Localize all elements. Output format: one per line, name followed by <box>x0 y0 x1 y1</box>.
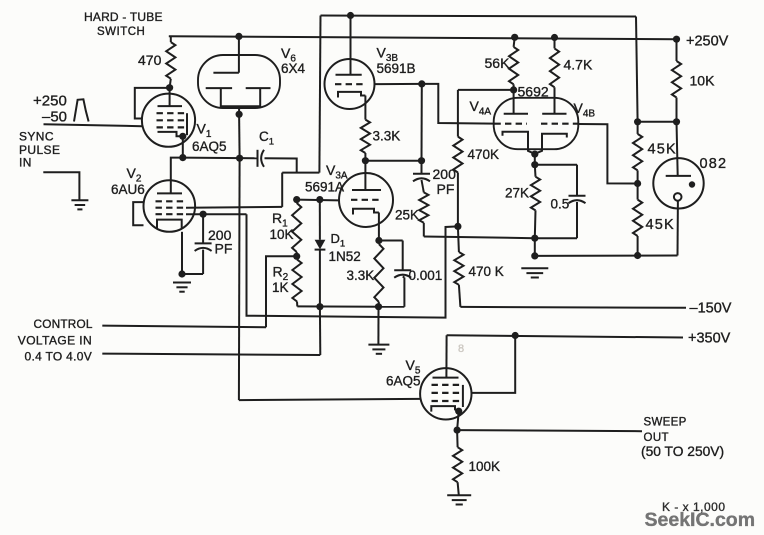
svg-text:1N52: 1N52 <box>329 249 361 264</box>
svg-text:45K: 45K <box>648 142 677 158</box>
node 082 gas dot <box>689 181 695 187</box>
wire V5 grid line <box>239 399 420 400</box>
node V4 cathode tap <box>531 151 538 158</box>
svg-text:45K: 45K <box>646 217 675 233</box>
wire 3.3K bottom to 200PF <box>365 160 421 162</box>
label IN <box>19 155 32 169</box>
wire V5 cathode bracket <box>431 406 458 412</box>
svg-text:VOLTAGE IN: VOLTAGE IN <box>18 333 92 347</box>
label 3.3K (V3B) <box>373 128 401 143</box>
diode D1 1N52 <box>315 200 326 307</box>
svg-text:+250: +250 <box>33 92 67 109</box>
resistor 470 K (lower) <box>454 226 463 307</box>
wire V4B grid route <box>578 124 637 184</box>
tube V3A 5691A envelope <box>339 173 393 227</box>
tube V2 6AU6 envelope <box>144 180 196 232</box>
svg-text:SWITCH: SWITCH <box>97 26 145 38</box>
svg-text:470K: 470K <box>468 147 500 162</box>
svg-text:–150V: –150V <box>690 301 732 317</box>
wire V4 grid dashes left <box>494 123 527 125</box>
wire V2 cathode bracket <box>157 220 182 229</box>
label V1 type 6AQ5 <box>192 139 227 154</box>
wire V2 grid dashes row2 <box>156 207 187 209</box>
wire C1 node down to V2 screen <box>281 173 283 207</box>
label R2 value 1K <box>272 280 289 295</box>
label SYNC <box>19 130 54 144</box>
node 3.3K bottom / ground tap <box>375 303 382 310</box>
capacitor 200 PF (V2 cathode) leads <box>202 214 204 274</box>
label 45K (upper) <box>648 142 677 158</box>
label 10K <box>690 72 716 88</box>
label -150V <box>690 301 732 317</box>
label 27K <box>505 186 529 201</box>
resistor 27K <box>531 165 540 239</box>
svg-text:5691B: 5691B <box>377 61 416 76</box>
wire +350V line <box>447 335 683 337</box>
tube V6 6X4 envelope <box>198 55 280 108</box>
capacitor C1 <box>258 150 265 167</box>
node D1 top <box>316 196 323 203</box>
wire 470K top link <box>458 89 514 91</box>
label V3A type 5691A <box>305 180 344 195</box>
ground sync input <box>71 200 88 209</box>
wire control line 2 <box>102 307 320 355</box>
label PULSE <box>19 143 60 157</box>
node 5692 plate junction <box>510 86 517 93</box>
wire control line 1 <box>102 326 266 328</box>
wire V1 grid dashes row1 <box>157 112 188 114</box>
node C1 left / V6 node <box>236 155 243 162</box>
wire 082 cathode lead <box>677 201 679 256</box>
resistor 470K (upper) <box>453 90 462 227</box>
label 0.5 <box>551 197 570 212</box>
label V6 type 6X4 <box>281 61 306 76</box>
label +250 pulse level <box>33 92 67 109</box>
wire V1 cathode down <box>182 136 184 157</box>
wire V4B plate bar <box>542 113 566 115</box>
label V1 <box>197 121 212 140</box>
node V3B grid junction <box>418 80 425 87</box>
label 200 (V2) <box>208 227 232 243</box>
label 200 (V3B) <box>433 166 457 182</box>
wire 0.5 loop top <box>535 164 577 166</box>
label V5 type 6AQ5 <box>386 374 421 389</box>
svg-text:3.3K: 3.3K <box>347 268 375 283</box>
wire V1 grid dashes row3 <box>157 126 188 128</box>
svg-text:1K: 1K <box>272 280 289 295</box>
wire V4A plate bar <box>504 113 528 115</box>
svg-text:100K: 100K <box>469 459 501 474</box>
wire V5 grid dashes row2 <box>432 392 463 394</box>
wire V1 screen bracket <box>186 113 188 135</box>
node V2 ground junction <box>178 270 185 277</box>
wire rail down right side <box>636 17 638 122</box>
tube V5 6AQ5 envelope <box>420 368 471 419</box>
wire 082 anode lead <box>677 122 678 176</box>
svg-text:SeekIC.com: SeekIC.com <box>645 509 756 531</box>
wire V5 grid dashes row1 <box>432 384 463 386</box>
svg-text:SYNC: SYNC <box>19 130 54 144</box>
resistor 10K <box>672 39 681 122</box>
wire V1 grid dashes row2 <box>157 119 188 121</box>
node 45K top junction <box>634 118 641 125</box>
label VOLTAGE IN <box>18 333 92 347</box>
wire V3B plate lead <box>350 16 352 75</box>
wire V6 cathode down to C1 node <box>238 114 241 158</box>
resistor 470 <box>166 36 175 87</box>
wire V1 plate bar <box>158 105 183 107</box>
wire V3A grid dashes <box>351 199 382 201</box>
node V1 cathode <box>179 133 186 140</box>
wire V2 cathode line right <box>186 213 247 215</box>
op V1 plate lead <box>169 88 171 106</box>
wire V1 cathode to C1 <box>183 157 258 160</box>
label 3.3K (V3A) <box>347 268 375 283</box>
node 10K bottom <box>673 118 680 125</box>
ground V3A cathode bus <box>368 345 389 354</box>
svg-text:OUT: OUT <box>644 432 669 444</box>
svg-text:5691A: 5691A <box>305 180 344 195</box>
label V3B <box>377 45 399 64</box>
svg-text:V4A: V4A <box>470 98 492 117</box>
label V5 <box>406 357 421 376</box>
svg-text:10K: 10K <box>270 227 294 242</box>
wire V3B grid line to V4A <box>374 83 422 85</box>
wire -150V line <box>460 306 686 309</box>
label PF (V3B) <box>437 181 455 197</box>
svg-text:6AQ5: 6AQ5 <box>192 139 227 154</box>
wire V5 cathode down <box>457 411 459 430</box>
svg-text:PF: PF <box>437 181 455 197</box>
wire 200PF bottom link <box>182 273 203 275</box>
svg-text:0.5: 0.5 <box>551 197 570 212</box>
resistor 100K <box>453 430 462 495</box>
wire V1 cathode bar <box>158 132 183 136</box>
label SeekIC.com watermark <box>645 509 756 531</box>
label 470K (upper) <box>468 147 500 162</box>
label V6 <box>281 45 296 64</box>
label D1 <box>331 231 346 249</box>
label 45K (lower) <box>646 217 675 233</box>
label +350V <box>688 330 731 346</box>
wire 0.5 loop bottom <box>535 237 577 239</box>
svg-text:8: 8 <box>458 343 464 355</box>
wire V3A cathode down <box>378 213 380 241</box>
svg-text:0.4 TO 4.0V: 0.4 TO 4.0V <box>25 349 93 363</box>
tube 082 regulator envelope <box>653 158 703 208</box>
wire control tap to R1/R2 junction <box>266 256 297 327</box>
node V4 cathode / 27K top <box>531 161 538 168</box>
resistor 56K <box>509 37 518 90</box>
svg-text:470: 470 <box>138 52 162 68</box>
wire V6 anode bar left <box>206 87 232 89</box>
node 470K divider junction <box>454 223 461 230</box>
svg-text:6AU6: 6AU6 <box>111 182 145 197</box>
wire V6 cathode bracket <box>221 88 260 106</box>
node 470/V1 junction <box>166 84 173 91</box>
svg-text:10K: 10K <box>690 72 716 88</box>
node R1/R2 junction <box>293 253 300 260</box>
label 470 K (lower) <box>469 264 504 279</box>
node junction V6 plate on +250V rail <box>235 33 242 40</box>
wire V3A plate lead <box>364 161 366 190</box>
wire C1 node to V5 grid riser <box>238 158 241 400</box>
wire V4A plate lead <box>513 90 515 114</box>
resistor R2 1K <box>292 260 301 307</box>
resistor 45K (upper) <box>633 122 642 184</box>
resistor 3.3K (V3B cathode) <box>361 120 370 161</box>
label D1 type 1N52 <box>329 249 361 264</box>
svg-text:082: 082 <box>700 156 728 172</box>
svg-text:SWEEP: SWEEP <box>644 416 687 428</box>
wire V6 plate lead <box>238 36 240 72</box>
node junction 4.7K top <box>551 34 558 41</box>
label V3A <box>326 162 348 181</box>
ground V4 cathode network <box>521 268 548 277</box>
label V4A <box>470 98 492 117</box>
label R2 <box>273 264 289 283</box>
wire bus A to 0.001 bottom <box>403 278 405 307</box>
label K multiplier note <box>662 500 726 514</box>
label +250V <box>686 34 729 50</box>
wire V3B grid down to 200PF <box>421 84 423 161</box>
label HARD-TUBE SWITCH <box>84 10 163 38</box>
svg-text:IN: IN <box>19 155 32 169</box>
svg-text:27K: 27K <box>505 186 529 201</box>
resistor 3.3K (V3A cathode) <box>374 244 383 307</box>
svg-text:200: 200 <box>433 166 457 182</box>
label OUT <box>644 432 669 444</box>
resistor 25K <box>419 192 428 236</box>
label 0.4 TO 4.0V <box>25 349 93 363</box>
wire V6 anode bar right <box>246 87 271 89</box>
resistor R1 10K <box>292 203 301 256</box>
node ground bus junction <box>531 252 538 259</box>
label PF (V2) <box>215 240 233 256</box>
label CONTROL <box>34 317 93 331</box>
node 200PF tap <box>418 157 425 164</box>
label -50 pulse level <box>42 108 67 125</box>
capacitor 200 PF (V3B) leads <box>422 161 424 193</box>
label R1 <box>272 210 288 229</box>
svg-text:C1: C1 <box>259 129 274 147</box>
wire V5 screen bracket <box>462 385 464 407</box>
node V5 cathode <box>455 408 462 415</box>
wire V3B cathode bracket <box>338 92 365 98</box>
wire V4 grid dashes right <box>541 123 578 125</box>
svg-text:56K: 56K <box>485 55 511 71</box>
wire V4B cathode bracket <box>536 134 567 154</box>
label 4.7K <box>564 57 593 73</box>
capacitor 0.001 <box>394 270 411 278</box>
wire V3B grid dashes <box>335 83 364 85</box>
capacitor 0.5 leads <box>576 165 578 239</box>
tube V3B 5691B envelope <box>325 59 375 109</box>
waveform sync pulse <box>74 99 89 121</box>
wire ground bus to right <box>535 255 678 257</box>
wire sweep out line <box>457 430 642 431</box>
capacitor 0.001 leads <box>403 241 405 278</box>
wire V5 screen loop <box>471 336 515 393</box>
wire V2 cathode down <box>181 232 183 274</box>
wire V2 screen line to C1 node <box>186 206 282 209</box>
wire V3B plate bar <box>336 74 362 76</box>
wire bus B (V2 cathode to divider) <box>247 214 458 317</box>
label C1 <box>259 129 274 147</box>
wire V4A grid route <box>422 84 494 124</box>
node 3.3K bottom / V3A plate <box>362 157 369 164</box>
svg-text:–50: –50 <box>42 108 67 125</box>
tube V1 6AQ5 envelope <box>142 94 195 147</box>
node V2 cathode / 200PF top <box>200 211 207 218</box>
svg-text:(50 TO 250V): (50 TO 250V) <box>641 444 724 459</box>
wire sync ground stub <box>43 172 79 200</box>
capacitor 0.5 <box>569 196 586 204</box>
label 0.001 <box>409 268 443 283</box>
label V3B type 5691B <box>377 61 416 76</box>
node junction 56K top <box>511 34 518 41</box>
svg-text:25K: 25K <box>395 208 419 223</box>
svg-text:V1: V1 <box>197 121 212 140</box>
wire V5 plate lead <box>445 335 447 377</box>
node 45K midpoint <box>634 180 641 187</box>
wire V4 cathode down <box>534 154 536 165</box>
svg-text:+250V: +250V <box>686 34 729 50</box>
wire V6 cathode tap <box>238 106 240 114</box>
ground V5 cathode <box>447 495 471 504</box>
wire 25K bottom to V4 ground node <box>424 237 535 239</box>
node 27K bottom <box>531 235 538 242</box>
label R1 value 10K <box>270 227 294 242</box>
wire ground lead V3A bus <box>377 307 379 345</box>
label 25K <box>395 208 419 223</box>
label V4B <box>574 100 596 119</box>
wire C1 node horizontal <box>282 172 319 174</box>
node V3A cathode / 3.3K top <box>375 237 382 244</box>
resistor 4.7K <box>550 38 559 114</box>
resistor 45K (lower) <box>633 184 642 256</box>
wire +250V rail (top) <box>169 36 677 39</box>
label (50 TO 250V) <box>641 444 724 459</box>
wire V3B cathode down <box>364 96 366 120</box>
node +250V terminal <box>673 36 680 43</box>
ghost mark <box>458 343 464 355</box>
node 45K bottom <box>634 252 641 259</box>
node +350V screen tap <box>512 332 519 339</box>
tube V4 5692 envelope <box>494 98 579 149</box>
wire V3A grid line <box>297 199 339 202</box>
wire 0.001 top link <box>379 240 403 242</box>
capacitor 200 PF (V3B) <box>413 174 430 182</box>
node V6 cathode <box>236 111 243 118</box>
node sweep out junction <box>454 427 461 434</box>
label SWEEP <box>644 416 687 428</box>
wire V3A cathode bracket <box>353 209 379 215</box>
node D1 bottom on bus <box>316 303 323 310</box>
wire V6 plate bar <box>213 72 239 74</box>
svg-text:HARD - TUBE: HARD - TUBE <box>84 10 163 24</box>
svg-text:PF: PF <box>215 240 233 256</box>
label 082 <box>700 156 728 172</box>
wire V5 grid dashes row3 <box>432 400 463 402</box>
wire V2 plate bar <box>157 192 182 194</box>
label V2 type 6AU6 <box>111 182 145 197</box>
wire V2 grid dashes row1 <box>156 200 187 202</box>
wire V2 grid loop <box>133 202 143 225</box>
wire sync input line <box>44 124 143 126</box>
wire V5 plate bar <box>433 377 459 379</box>
svg-text:V3A: V3A <box>326 162 348 181</box>
label V2 <box>127 165 142 184</box>
wire V2 grid dashes row3 <box>156 213 187 215</box>
capacitor 200 PF (V2 cathode) <box>195 243 212 251</box>
svg-text:6AQ5: 6AQ5 <box>386 374 421 389</box>
ground V2 cathode <box>173 283 191 292</box>
label 56K <box>485 55 511 71</box>
label 100K <box>469 459 501 474</box>
label 470 value <box>138 52 162 68</box>
svg-text:4.7K: 4.7K <box>564 57 593 73</box>
wire 45K/10K link <box>638 121 677 123</box>
wire 082 anode bar <box>666 175 691 177</box>
svg-text:+350V: +350V <box>688 330 731 346</box>
node V1 cathode / V2 plate junction <box>179 154 186 161</box>
wire 082 cathode circle <box>674 193 682 201</box>
label 5692 <box>518 84 549 100</box>
svg-text:470 K: 470 K <box>469 264 504 279</box>
wire V1 grid-to-plate loop <box>135 88 170 119</box>
svg-text:CONTROL: CONTROL <box>34 317 93 331</box>
wire V3A plate bar <box>352 189 381 191</box>
wire C1 node riser to top rail <box>319 16 320 173</box>
wire C1 right to junction <box>265 158 297 172</box>
node R1 top <box>293 196 300 203</box>
wire cathode bus A <box>297 305 404 307</box>
svg-text:0.001: 0.001 <box>409 268 443 283</box>
node V3B plate on rail <box>347 12 354 19</box>
svg-text:3.3K: 3.3K <box>373 128 401 143</box>
wire top rail (V3B plate rail) <box>321 16 637 17</box>
svg-text:6X4: 6X4 <box>281 61 306 76</box>
wire V2 plate lead <box>171 158 183 194</box>
wire V4 ground lead <box>534 238 536 256</box>
svg-text:D1: D1 <box>331 231 346 249</box>
wire V4A cathode bracket <box>503 132 534 154</box>
